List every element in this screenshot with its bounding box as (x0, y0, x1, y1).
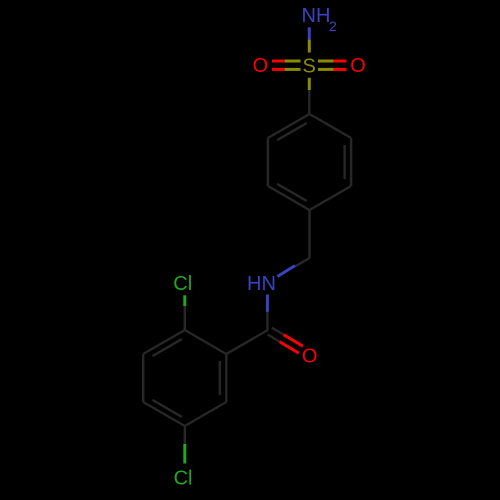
wire: bond CH2-N2 nitrogen half (blue) (277, 266, 295, 277)
wire: bond N2-C(amide) lower half (carbon) (266, 312, 268, 330)
svg-text:O: O (302, 345, 318, 367)
wire: S=O right double bond lower line (318, 68, 334, 71)
wire: bond N2-C(amide) upper half (blue) (266, 295, 269, 312)
wire: bond N1-S lower half (olive) (308, 40, 311, 53)
wire: bond C(amide)-ring (carbon) (226, 330, 268, 354)
wire: bond ring-Cl2 chlorine half (green) (183, 444, 186, 464)
wire: bond ringC4-CH2 (carbon) (308, 210, 310, 258)
wire: bond Cl1-ring carbon half (184, 306, 186, 330)
svg-text:O: O (350, 55, 366, 77)
wire: amide C=O double bond lower line (268, 335, 280, 342)
svg-text:O: O (253, 55, 269, 77)
svg-text:NH: NH (302, 5, 331, 27)
svg-text:S: S (303, 55, 316, 77)
svg-text:Cl: Cl (173, 273, 192, 295)
wire: bond CH2-N2 carbon half (295, 258, 310, 266)
wire: S=O left double bond lower line (272, 68, 285, 71)
wire: S=O left double bond upper line (272, 60, 285, 63)
wire: bond Cl1-ring chlorine half (green) (183, 295, 186, 306)
wire: amide C=O double bond upper line (272, 328, 284, 335)
wire: bond S-C(ring) lower half (carbon) (308, 90, 310, 114)
svg-text:Cl: Cl (174, 467, 193, 489)
node: top benzene ring (carbon bonds) (268, 114, 351, 210)
svg-text:2: 2 (329, 18, 337, 34)
svg-text:HN: HN (247, 273, 276, 295)
node: lower dichlorobenzene ring (carbon bonds) (143, 330, 226, 426)
wire: S=O right double bond upper line (318, 60, 334, 63)
wire: bond ring-Cl2 carbon half (184, 426, 186, 444)
wire: bond S-C(ring) upper half (olive) (308, 78, 311, 90)
wire: bond N1-S upper half (blue) (308, 27, 311, 39)
